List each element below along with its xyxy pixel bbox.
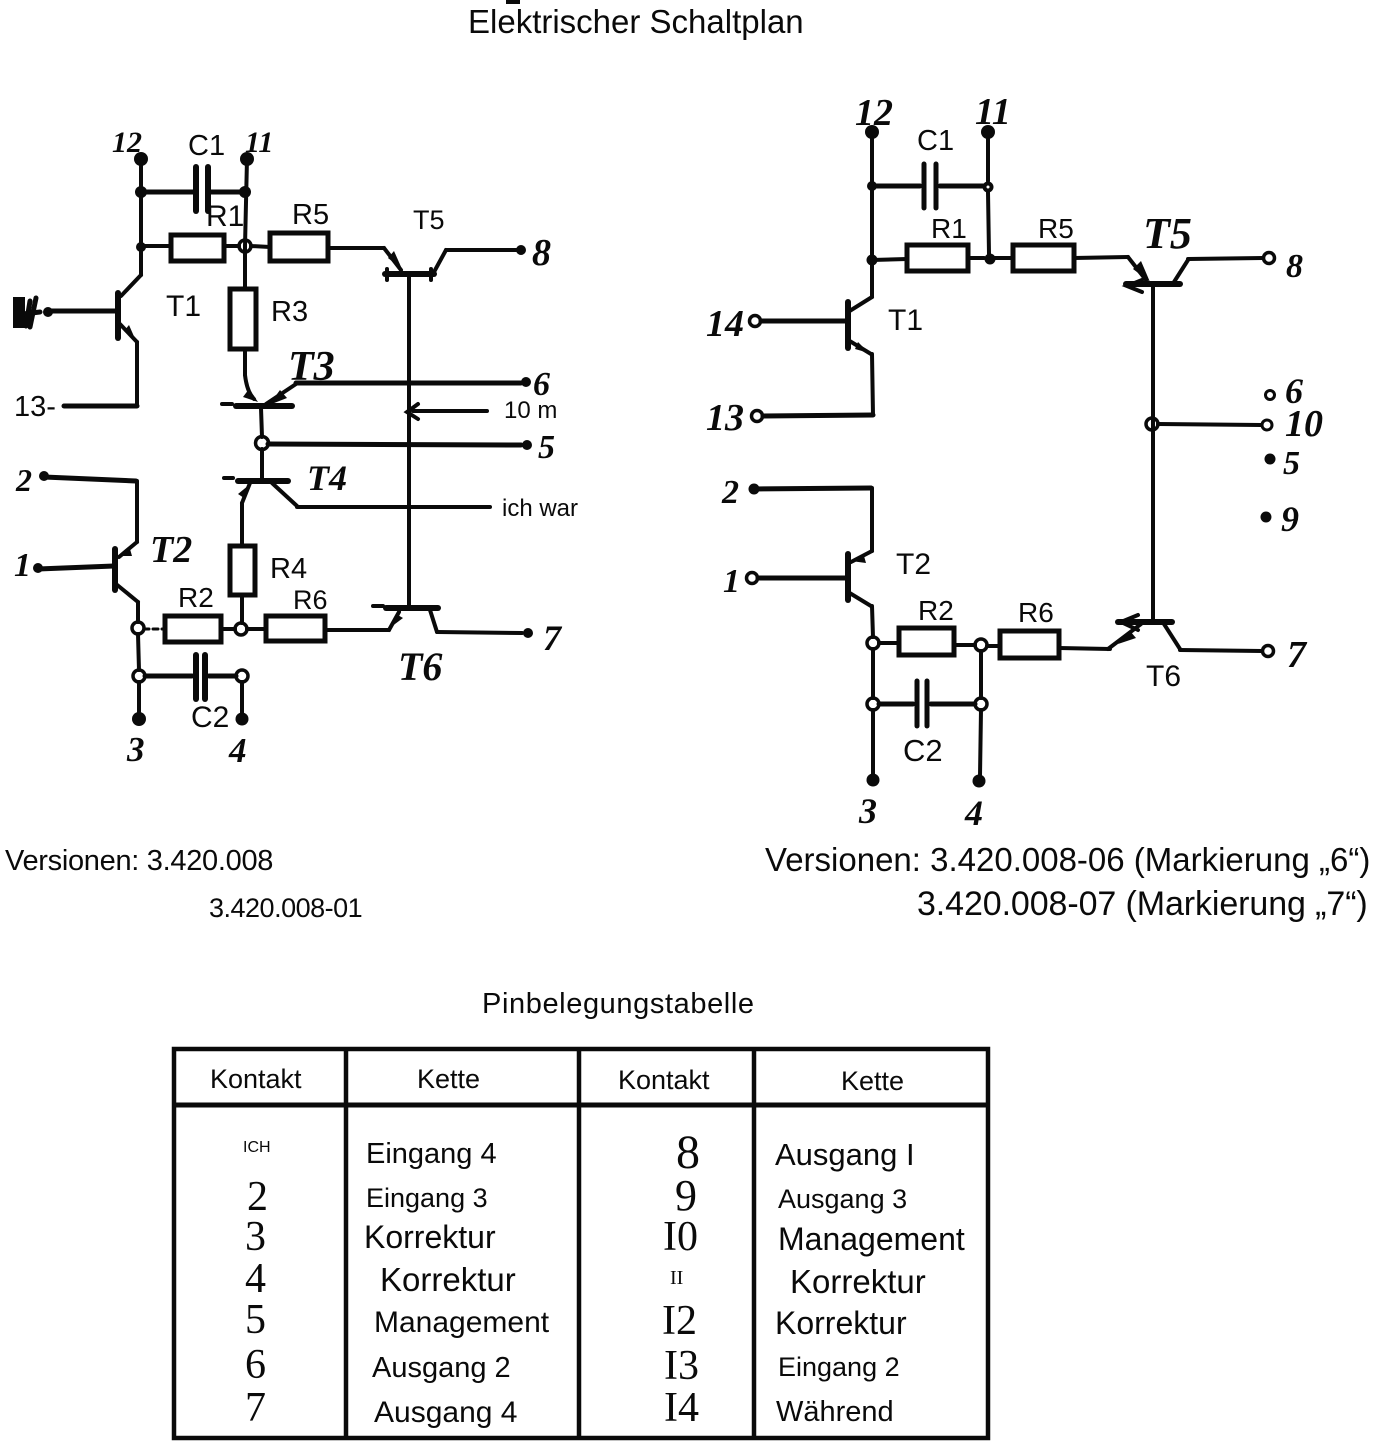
svg-text:Pinbelegungstabelle: Pinbelegungstabelle <box>482 988 755 1020</box>
svg-text:5: 5 <box>538 429 555 466</box>
svg-text:T6: T6 <box>398 644 442 689</box>
svg-text:Ausgang 3: Ausgang 3 <box>778 1184 907 1214</box>
svg-text:11: 11 <box>975 91 1011 133</box>
svg-text:Kontakt: Kontakt <box>210 1064 302 1094</box>
svg-text:T1: T1 <box>166 290 201 323</box>
svg-text:R2: R2 <box>178 582 214 613</box>
svg-text:R5: R5 <box>292 199 329 231</box>
svg-text:T2: T2 <box>150 529 192 571</box>
svg-text:5: 5 <box>1283 445 1300 482</box>
svg-text:3: 3 <box>858 791 877 831</box>
svg-text:11: 11 <box>245 126 273 159</box>
svg-text:9: 9 <box>1281 499 1299 539</box>
svg-text:5: 5 <box>245 1297 266 1343</box>
svg-text:T1: T1 <box>888 304 923 337</box>
svg-text:Eingang 3: Eingang 3 <box>366 1183 488 1213</box>
svg-text:3.420.008-07 (Markierung „7“): 3.420.008-07 (Markierung „7“) <box>917 885 1368 923</box>
svg-text:II: II <box>670 1267 683 1289</box>
svg-text:ICH: ICH <box>243 1139 271 1156</box>
svg-text:Ausgang I: Ausgang I <box>775 1137 915 1172</box>
svg-text:Ausgang 4: Ausgang 4 <box>374 1396 517 1429</box>
svg-text:3: 3 <box>245 1214 266 1260</box>
svg-text:R1: R1 <box>931 213 967 244</box>
svg-text:Elektrischer Schaltplan: Elektrischer Schaltplan <box>468 3 804 40</box>
svg-text:R2: R2 <box>918 595 954 626</box>
svg-text:R3: R3 <box>271 296 308 328</box>
svg-text:R6: R6 <box>1018 597 1054 628</box>
svg-text:3: 3 <box>126 730 145 769</box>
svg-text:ich war: ich war <box>502 495 578 522</box>
svg-text:Kette: Kette <box>417 1064 480 1094</box>
svg-text:T5: T5 <box>413 205 445 235</box>
svg-text:14: 14 <box>706 303 744 345</box>
svg-text:C2: C2 <box>191 701 229 734</box>
svg-text:Management: Management <box>374 1306 550 1339</box>
svg-text:4: 4 <box>964 793 983 833</box>
svg-text:Während: Während <box>776 1396 894 1428</box>
svg-text:I2: I2 <box>662 1298 697 1344</box>
svg-text:12: 12 <box>112 126 142 159</box>
svg-text:R6: R6 <box>293 585 328 615</box>
svg-text:4: 4 <box>228 731 247 770</box>
svg-text:Korrektur: Korrektur <box>775 1305 907 1341</box>
svg-text:Korrektur: Korrektur <box>790 1263 926 1300</box>
svg-text:C2: C2 <box>903 733 943 768</box>
svg-text:9: 9 <box>675 1171 697 1220</box>
svg-text:Eingang 4: Eingang 4 <box>366 1138 497 1170</box>
svg-text:Versionen: 3.420.008-06 (Marki: Versionen: 3.420.008-06 (Markierung „6“) <box>765 841 1370 878</box>
svg-text:T3: T3 <box>288 344 335 390</box>
svg-text:13-: 13- <box>14 391 56 423</box>
svg-text:I4: I4 <box>664 1385 699 1431</box>
svg-text:3.420.008-01: 3.420.008-01 <box>209 893 362 923</box>
svg-text:13: 13 <box>706 397 744 439</box>
svg-text:Kontakt: Kontakt <box>618 1065 710 1095</box>
svg-text:R1: R1 <box>206 200 244 233</box>
svg-text:T4: T4 <box>307 458 347 498</box>
svg-text:1: 1 <box>723 563 740 600</box>
svg-text:R4: R4 <box>270 553 307 585</box>
svg-text:2: 2 <box>721 474 739 511</box>
svg-text:10: 10 <box>1285 403 1323 445</box>
svg-text:Kette: Kette <box>841 1066 904 1096</box>
svg-text:C1: C1 <box>917 125 954 157</box>
svg-text:T6: T6 <box>1146 660 1181 693</box>
svg-text:Korrektur: Korrektur <box>380 1261 516 1298</box>
svg-text:8: 8 <box>1286 248 1303 285</box>
svg-text:10 m: 10 m <box>504 397 557 424</box>
svg-text:6: 6 <box>245 1342 266 1388</box>
svg-text:1: 1 <box>14 547 31 584</box>
svg-text:7: 7 <box>1287 634 1308 676</box>
svg-text:I3: I3 <box>664 1343 699 1389</box>
svg-text:Korrektur: Korrektur <box>364 1219 496 1255</box>
svg-text:12: 12 <box>855 92 893 134</box>
svg-text:Management: Management <box>778 1221 965 1257</box>
svg-text:7: 7 <box>245 1385 266 1431</box>
svg-text:8: 8 <box>532 232 551 274</box>
svg-text:I0: I0 <box>663 1214 698 1260</box>
svg-text:7: 7 <box>543 618 563 658</box>
svg-text:Ausgang 2: Ausgang 2 <box>372 1352 511 1384</box>
svg-text:T2: T2 <box>896 548 931 581</box>
svg-text:R5: R5 <box>1038 213 1074 244</box>
svg-text:Versionen: 3.420.008: Versionen: 3.420.008 <box>5 845 273 877</box>
svg-text:T5: T5 <box>1143 209 1192 258</box>
svg-text:C1: C1 <box>188 130 225 162</box>
svg-text:Eingang 2: Eingang 2 <box>778 1352 900 1382</box>
svg-text:2: 2 <box>15 462 32 498</box>
svg-text:4: 4 <box>245 1256 266 1302</box>
